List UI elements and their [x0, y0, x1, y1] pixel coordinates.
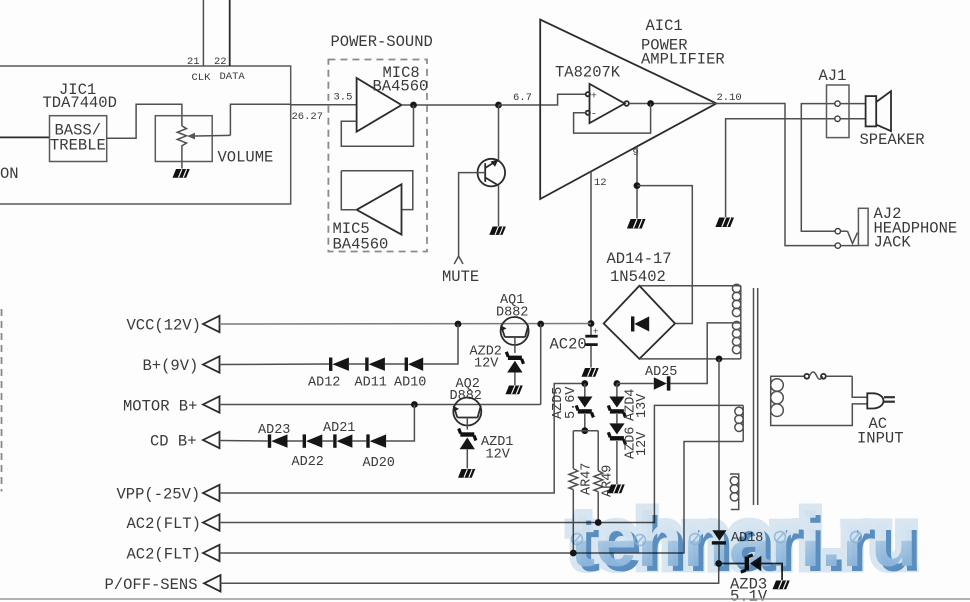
diode AD23 — [268, 434, 288, 447]
wire primary to plug lower — [776, 404, 867, 426]
svg-text:AD12: AD12 — [308, 376, 340, 391]
label AC20 — [550, 336, 587, 354]
wire AD18 rail down — [718, 359, 720, 530]
label AJ2 — [874, 205, 902, 223]
connector AJ1 (box) — [827, 85, 850, 138]
wire BASS/TREBLE output to volume pot — [107, 104, 182, 138]
transformer core — [754, 288, 758, 505]
svg-text:AD10: AD10 — [394, 376, 426, 391]
wire resistor top bus — [573, 430, 598, 432]
wire AD18 to node — [718, 545, 720, 564]
bridge rectifier AD14-17 (diamond) — [604, 286, 675, 359]
wire MIC5 loop — [341, 171, 413, 210]
wire AC2 first rail — [220, 405, 744, 522]
wire AC2 second rail — [220, 442, 744, 554]
ground (AC20) — [582, 368, 599, 377]
node MOTOR/CD junction — [411, 401, 418, 408]
dashed edge left margin — [1, 309, 3, 492]
svg-text:P/OFF-SENS: P/OFF-SENS — [105, 576, 198, 594]
transistor mute Q (circle) — [478, 159, 506, 187]
wire AD20 to MOTOR node — [386, 405, 414, 442]
connector arrow AC2(FLT) second — [203, 545, 220, 561]
node pin 9 junction — [634, 182, 641, 189]
label DATA — [220, 71, 246, 83]
label HEADPHONE — [874, 220, 958, 238]
label AIC1 — [646, 17, 683, 35]
svg-text:5.1V: 5.1V — [730, 588, 768, 602]
node AZD5/AR47/AR49 junction — [581, 427, 588, 434]
svg-text:TA8207K: TA8207K — [555, 64, 621, 82]
label AZD2 — [470, 345, 502, 360]
wire AQ1 base to AZD2 — [514, 337, 516, 353]
connector arrow CD B+ — [203, 432, 220, 448]
capacitor AC20 — [585, 327, 598, 346]
svg-text:POWER-SOUND: POWER-SOUND — [331, 33, 433, 51]
wire B+ rail — [220, 363, 330, 366]
svg-text:ON: ON — [0, 165, 19, 183]
diode AD18 — [712, 530, 727, 544]
connector arrow VPP(-25V) — [203, 485, 220, 501]
diode AD21 — [333, 434, 352, 447]
svg-text:TREBLE: TREBLE — [50, 137, 106, 155]
diode AD20 — [366, 434, 386, 447]
pin 21 wire CLK — [202, 0, 204, 66]
wire wiper to pin 26.27 output — [230, 104, 290, 135]
label INPUT — [857, 430, 904, 448]
wire AD23-AD22 — [288, 440, 303, 442]
svg-text:12V: 12V — [474, 357, 499, 372]
zener AZD5 (inverted) — [576, 384, 593, 431]
label AD20 — [363, 456, 395, 471]
label AD11 — [355, 376, 387, 391]
connector arrow AC2(FLT) first — [203, 514, 220, 530]
wire AD12-AD11 — [349, 363, 365, 365]
wire MIC8 output — [402, 104, 499, 106]
svg-text:12V: 12V — [635, 431, 650, 456]
label VCC(12V) — [127, 317, 201, 335]
node mute branch junction — [495, 102, 502, 109]
svg-text:AC2(FLT): AC2(FLT) — [127, 515, 201, 533]
node VCC/AQ2 junction — [537, 321, 544, 328]
wire MOTOR rail — [220, 404, 541, 406]
label AZD1 — [481, 435, 513, 450]
label CD B+ — [150, 433, 197, 451]
wire AD21-AD20 — [352, 440, 366, 442]
svg-text:MOTOR B+: MOTOR B+ — [123, 398, 197, 416]
wire AD11-AD10 — [385, 363, 405, 365]
wire AZD2 to ground — [514, 373, 516, 386]
zener AZD4 (inverted) — [608, 384, 625, 418]
label AR49 (rotated) — [601, 465, 616, 497]
label pin 12 — [594, 177, 607, 189]
bottom scan edge line — [0, 598, 970, 600]
node transformer secondary top junction — [716, 356, 723, 363]
svg-text:BA4560: BA4560 — [333, 236, 389, 254]
label BA4560 (MIC8) — [373, 78, 429, 96]
output wire 2.10 — [716, 104, 837, 246]
wire bridge bottom to AD18 rail — [639, 358, 740, 360]
AC plug — [867, 393, 895, 408]
svg-text:AJ1: AJ1 — [819, 67, 847, 85]
wire primary to plug upper — [852, 376, 867, 397]
svg-text:AD20: AD20 — [363, 456, 395, 471]
label AZD6 12V (rotated) — [624, 427, 651, 459]
svg-text:VOLUME: VOLUME — [218, 149, 274, 167]
diode inside bridge — [631, 316, 649, 331]
label ON (truncated word at image edge) — [0, 165, 19, 183]
label 12V (AZD2) — [474, 357, 499, 372]
label AC2(FLT) first — [127, 515, 201, 533]
ground (pin 9) — [627, 219, 646, 228]
potentiometer wiper arrow — [187, 133, 230, 140]
node feedback junction — [647, 100, 654, 107]
zener AZD3 (horizontal, pointing left) — [741, 555, 762, 572]
svg-text:BA4560: BA4560 — [373, 78, 429, 96]
label AQ1 — [500, 293, 524, 308]
wire signal to power amp input — [499, 94, 586, 105]
wire MIC8 feedback loop — [341, 105, 413, 146]
wire VCC to AQ2 collector — [540, 324, 542, 405]
svg-text:MUTE: MUTE — [442, 268, 479, 286]
wire op-amp feedback loop — [574, 104, 651, 134]
label pin 2.10 — [717, 92, 742, 104]
svg-text:+: + — [591, 91, 597, 103]
svg-text:AD23: AD23 — [258, 423, 290, 438]
pin AJ2-1 — [835, 229, 840, 234]
svg-text:12V: 12V — [486, 448, 511, 463]
fuse — [776, 372, 852, 379]
wire AD25 anode — [617, 383, 654, 385]
ground (speaker return) — [715, 218, 734, 227]
label MIC8 — [383, 64, 420, 82]
wire pin 9 down — [636, 147, 638, 219]
svg-text:3.5: 3.5 — [334, 92, 353, 104]
wire AJ1 to speaker — [840, 104, 866, 119]
label AJ1 — [819, 67, 847, 85]
label AD22 — [292, 455, 324, 470]
svg-text:DATA: DATA — [220, 71, 246, 83]
label B+(9V) — [143, 357, 199, 375]
label AD23 — [258, 423, 290, 438]
op-amp MIC8 (triangle) — [357, 78, 402, 132]
label AZD4 13V (rotated) — [624, 389, 651, 421]
dashed box POWER-SOUND — [328, 60, 427, 252]
op-amp MIC5 (triangle, pointing left) — [357, 184, 402, 234]
label MIC5 — [333, 220, 370, 238]
label MOTOR B+ — [123, 398, 197, 416]
svg-text:AD25: AD25 — [645, 365, 677, 380]
wire pin 12 down to VCC node — [590, 171, 592, 335]
label pin 3.5 — [334, 92, 353, 104]
transistor AQ1 D882 — [501, 317, 529, 345]
wire 26.27 to MIC8 input — [291, 104, 357, 106]
diode AD12 — [329, 358, 349, 371]
wire mute base — [459, 173, 486, 256]
svg-text:AMPLIFIER: AMPLIFIER — [641, 51, 725, 69]
wire pin 9 node to bridge right — [637, 186, 692, 324]
arrowhead MUTE input — [454, 256, 463, 264]
svg-text:AIC1: AIC1 — [646, 17, 683, 35]
wire speaker return to ground — [726, 119, 838, 217]
pin AJ2-2 — [835, 243, 840, 248]
wire mute emitter to ground — [498, 186, 500, 227]
svg-text:VCC(12V): VCC(12V) — [127, 317, 201, 335]
zener AZD6 (inverted) — [608, 414, 625, 484]
label 12V (AZD1) — [486, 448, 511, 463]
label TDA7440D — [43, 94, 117, 112]
transformer secondary winding 2 — [732, 321, 740, 358]
label 1N5402 — [610, 268, 666, 286]
ground (mute transistor) — [489, 227, 506, 235]
label 5.1V — [730, 588, 768, 602]
svg-text:-: - — [591, 109, 597, 121]
node AR49/AC2 junction — [595, 519, 602, 526]
svg-text:INPUT: INPUT — [857, 430, 904, 448]
svg-text:AD14-17: AD14-17 — [607, 250, 672, 268]
label AD10 — [394, 376, 426, 391]
svg-text:tehnari.ru: tehnari.ru — [570, 497, 917, 583]
svg-text:D882: D882 — [496, 306, 528, 321]
label POWER-SOUND — [331, 33, 433, 51]
connector arrow MOTOR B+ — [203, 396, 220, 412]
wire AZD3 to ground — [761, 564, 782, 581]
ground (AZD6) — [608, 485, 625, 494]
wire pot bottom to ground — [181, 148, 183, 169]
svg-text:AC20: AC20 — [550, 336, 587, 354]
label AC2(FLT) second — [127, 546, 201, 564]
potentiometer VOLUME (zigzag) — [177, 126, 186, 148]
label pin 9 — [633, 147, 639, 159]
label AQ2 — [456, 377, 480, 392]
label AD25 — [645, 365, 677, 380]
svg-text:SPEAKER: SPEAKER — [860, 131, 925, 149]
node AD18/AZD3/P-OFF junction — [715, 560, 722, 567]
svg-text:26.27: 26.27 — [292, 111, 324, 123]
connector arrow B+(9V) — [203, 356, 220, 372]
block BASS/TREBLE — [50, 116, 107, 162]
label BASS/ — [55, 122, 102, 140]
label TREBLE — [50, 137, 106, 155]
speaker symbol — [866, 91, 891, 131]
svg-text:9: 9 — [633, 147, 639, 159]
wire MIC5 output to loop — [341, 171, 356, 210]
label JACK — [874, 234, 912, 252]
svg-text:12: 12 — [594, 177, 607, 189]
wire AC20 to ground — [590, 346, 592, 368]
svg-text:VPP(-25V): VPP(-25V) — [117, 486, 201, 504]
svg-text:D882: D882 — [450, 389, 482, 404]
svg-text:2.10: 2.10 — [717, 92, 742, 104]
op-amp inside TA8207K — [586, 84, 629, 123]
connector arrow P/OFF-SENS — [204, 575, 221, 591]
wire VPP rail to AD25 — [220, 384, 585, 494]
label AZD3 — [730, 576, 767, 594]
label BA4560 (MIC5) — [333, 236, 389, 254]
wire AD22-AD21 — [322, 440, 333, 442]
svg-text:JACK: JACK — [874, 234, 912, 252]
svg-text:TDA7440D: TDA7440D — [43, 94, 117, 112]
wire AD25 cathode to transformer tap — [670, 323, 740, 384]
label AC — [869, 415, 888, 433]
transformer secondary winding 3 — [735, 405, 743, 441]
label AD21 — [323, 421, 355, 436]
wire VCC rail — [220, 323, 592, 326]
wire op-amp output — [629, 103, 716, 105]
svg-text:21: 21 — [187, 56, 200, 68]
diode AD25 — [654, 376, 671, 390]
pin AJ1-2 — [835, 116, 840, 121]
wire CD rail — [220, 440, 268, 443]
svg-text:6.7: 6.7 — [513, 92, 532, 104]
pin 22 wire DATA — [229, 0, 231, 66]
label AR47 (rotated) — [580, 463, 595, 495]
ground (volume pot) — [173, 169, 190, 178]
wire P/OFF-SENS rail — [221, 564, 719, 584]
label AD12 — [308, 376, 340, 391]
diode AD11 — [365, 358, 385, 371]
ground (AZD2) — [506, 386, 523, 395]
label POWER — [641, 37, 688, 55]
svg-text:AD21: AD21 — [323, 421, 355, 436]
svg-text:5.6V: 5.6V — [564, 386, 579, 419]
wire AZD1 to ground — [466, 449, 468, 468]
label AD18 — [731, 531, 763, 546]
wire AD10 to VCC node — [423, 324, 458, 364]
connector arrow VCC(12V) — [203, 316, 220, 332]
wire node to AZD3 — [719, 563, 745, 565]
node AR47/AC2 junction — [570, 550, 577, 557]
pin AJ1-1 — [835, 101, 840, 106]
resistor AR49 — [594, 431, 603, 523]
svg-text:AC2(FLT): AC2(FLT) — [127, 546, 201, 564]
label P/OFF-SENS — [105, 576, 198, 594]
node VCC bridge junction — [588, 320, 595, 327]
label VOLUME — [218, 149, 274, 167]
diode AD10 — [405, 358, 424, 371]
label AZD5 5.6V (rotated) — [551, 386, 579, 419]
svg-text:B+(9V): B+(9V) — [143, 357, 199, 375]
label pin 26.27 — [292, 111, 324, 123]
svg-text:+: + — [593, 327, 598, 337]
label CLK — [192, 72, 212, 84]
node MIC8 output junction — [410, 102, 417, 109]
power amplifier AIC1 (big triangle) — [540, 20, 716, 200]
label MUTE — [442, 268, 479, 286]
ground (AZD3) — [773, 581, 790, 590]
svg-text:AD11: AD11 — [355, 376, 387, 391]
node AZD5 top junction — [581, 380, 588, 387]
wire bridge top to transformer — [639, 285, 740, 287]
block VOLUME (box) — [155, 116, 212, 162]
pin 21 label — [187, 56, 200, 68]
label AD14-17 — [607, 250, 672, 268]
label SPEAKER — [860, 131, 925, 149]
node VCC/B+ junction — [455, 321, 462, 328]
label D882 (AQ2) — [450, 389, 482, 404]
svg-text:22: 22 — [214, 56, 227, 68]
svg-text:1N5402: 1N5402 — [610, 268, 666, 286]
wire speaker feed branch — [801, 104, 838, 232]
transformer secondary winding 1 — [732, 284, 740, 320]
label VPP(-25V) — [117, 486, 201, 504]
label pin 6.7 — [513, 92, 532, 104]
label D882 (AQ1) — [496, 306, 528, 321]
zener AZD1 — [459, 429, 476, 450]
zener AZD2 — [506, 352, 523, 373]
diode AD22 — [303, 434, 323, 447]
wire mute collector to signal — [498, 105, 500, 160]
wire center tap — [740, 320, 742, 323]
svg-text:CLK: CLK — [192, 72, 212, 84]
wire AQ2 base to AZD1 — [466, 418, 468, 430]
pin 22 label — [214, 56, 227, 68]
svg-text:CD B+: CD B+ — [150, 433, 197, 451]
watermark tehnari.ru — [570, 497, 922, 588]
label AMPLIFIER — [641, 51, 725, 69]
transistor AQ2 D882 — [453, 398, 481, 426]
transformer secondary winding 4 (unconnected stubs) — [730, 474, 739, 510]
headphone jack AJ2 (body and switch contact) — [840, 208, 868, 245]
ground (AZD1) — [458, 469, 475, 478]
svg-text:13V: 13V — [635, 393, 650, 418]
svg-text:AD22: AD22 — [292, 455, 324, 470]
label JIC1 — [59, 81, 96, 99]
node AZD4 top junction — [614, 380, 621, 387]
resistor AR47 — [569, 431, 578, 553]
IC block JIC1 TDA7440D (box) — [0, 66, 291, 204]
label TA8207K — [555, 64, 621, 82]
transformer primary winding — [771, 376, 784, 425]
wire input to BASS/TREBLE — [0, 136, 50, 138]
